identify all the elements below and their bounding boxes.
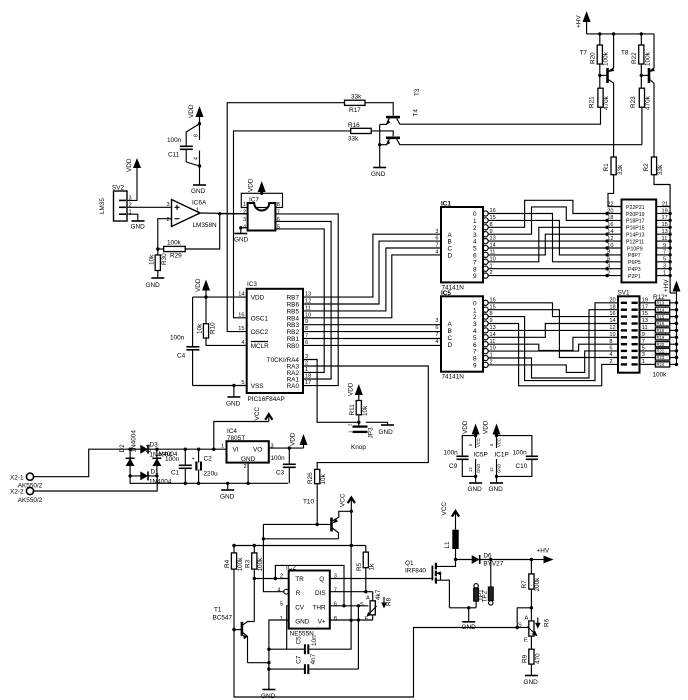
svg-text:1: 1 bbox=[243, 202, 246, 208]
supply VCC (T10) bbox=[340, 493, 355, 513]
wire IC5 out9 to SV1 6 bbox=[488, 351, 618, 373]
wire emitters to ground bbox=[379, 124, 381, 167]
svg-text:S: S bbox=[360, 602, 364, 608]
wire +HV rail bbox=[587, 33, 654, 35]
wire source to gnd bbox=[449, 607, 476, 609]
terminal X2-1 bbox=[10, 473, 43, 489]
svg-text:R30: R30 bbox=[161, 253, 168, 265]
wire THR extension to R8 wiper bbox=[344, 605, 369, 607]
ground (IC7) bbox=[234, 234, 249, 244]
wire RB6 to IC1 B bbox=[303, 241, 441, 304]
svg-text:VO: VO bbox=[253, 447, 262, 454]
svg-text:D1: D1 bbox=[151, 469, 160, 476]
svg-text:C10: C10 bbox=[516, 463, 528, 470]
svg-text:8: 8 bbox=[334, 616, 337, 622]
resistor R1 33k bbox=[603, 157, 624, 175]
wire RA3 to R26 loop bbox=[303, 366, 428, 469]
svg-text:R14: R14 bbox=[657, 307, 665, 312]
wire op-amp inverting input bbox=[158, 219, 172, 249]
wire RB2 to IC5 B bbox=[303, 331, 441, 333]
wire IC5 out0 to SV1 16 bbox=[488, 303, 618, 317]
wire IC1 out6 to pin14 bbox=[488, 234, 621, 255]
svg-text:R19: R19 bbox=[657, 335, 665, 340]
svg-text:GND: GND bbox=[131, 224, 146, 231]
svg-text:A: A bbox=[366, 596, 370, 602]
svg-text:18: 18 bbox=[607, 215, 613, 221]
svg-text:VDD: VDD bbox=[348, 382, 355, 396]
wire IC7 pin7 to RA0 bbox=[275, 214, 338, 386]
svg-text:T1: T1 bbox=[214, 607, 222, 614]
svg-text:18: 18 bbox=[305, 374, 311, 380]
svg-text:BYV27: BYV27 bbox=[483, 561, 503, 568]
svg-text:2: 2 bbox=[167, 217, 170, 223]
svg-text:14: 14 bbox=[609, 318, 615, 324]
svg-text:C11: C11 bbox=[168, 152, 180, 159]
svg-text:P10P9: P10P9 bbox=[627, 246, 643, 252]
svg-text:P22P21: P22P21 bbox=[626, 205, 645, 211]
svg-text:T8: T8 bbox=[621, 50, 629, 57]
svg-text:VCC: VCC bbox=[441, 502, 448, 516]
svg-text:VSS: VSS bbox=[251, 383, 264, 390]
wire IC1 out2 to pin20 bbox=[488, 200, 621, 227]
svg-text:PIC16F84AP: PIC16F84AP bbox=[248, 396, 285, 403]
svg-text:R22: R22 bbox=[631, 52, 638, 64]
wire R16 to T3 base bbox=[371, 131, 393, 136]
svg-text:DIS: DIS bbox=[315, 590, 326, 597]
wire TR THR loop bbox=[275, 565, 344, 605]
svg-text:74141N: 74141N bbox=[442, 374, 465, 381]
svg-text:GND: GND bbox=[524, 679, 539, 686]
wire op-amp output to IC7 pin2 bbox=[220, 213, 248, 215]
svg-text:P16P15: P16P15 bbox=[626, 226, 645, 232]
svg-text:10k: 10k bbox=[320, 473, 327, 484]
svg-text:Q1: Q1 bbox=[405, 560, 414, 567]
supply VDD (C11) bbox=[188, 104, 204, 124]
decoder IC1 74141N bbox=[435, 201, 495, 292]
svg-text:33k: 33k bbox=[657, 164, 664, 175]
svg-text:A: A bbox=[525, 616, 529, 622]
supply +HV (R12 rail) bbox=[663, 279, 681, 293]
wire CV to C5 line bbox=[287, 606, 289, 649]
svg-text:470k: 470k bbox=[603, 95, 610, 110]
wire RB5 to IC1 C bbox=[303, 248, 441, 311]
wire T1 collector to TR bbox=[253, 579, 255, 622]
svg-text:OSC1: OSC1 bbox=[251, 315, 269, 322]
supply VDD (IC3) bbox=[195, 278, 210, 297]
terminal X2-2 bbox=[10, 487, 43, 503]
svg-text:12: 12 bbox=[609, 325, 615, 331]
svg-text:R6: R6 bbox=[544, 618, 551, 627]
svg-text:GND: GND bbox=[468, 486, 483, 493]
transistor T4 bbox=[380, 109, 601, 125]
node emitters bbox=[378, 143, 381, 146]
svg-text:4: 4 bbox=[607, 264, 610, 270]
svg-text:21: 21 bbox=[662, 201, 668, 207]
ground (Q1) bbox=[462, 608, 477, 631]
svg-text:SV2: SV2 bbox=[112, 185, 125, 192]
connector SV2 bbox=[112, 185, 132, 222]
resistor R26 10k bbox=[307, 469, 327, 524]
wire feedback down bbox=[185, 214, 220, 249]
svg-text:1: 1 bbox=[305, 367, 308, 373]
svg-text:D: D bbox=[448, 253, 453, 260]
svg-text:4n7: 4n7 bbox=[310, 653, 317, 664]
node maze1 dots bbox=[605, 212, 608, 277]
supply VDD (IC5P) bbox=[462, 420, 480, 435]
svg-text:18: 18 bbox=[609, 304, 615, 310]
svg-text:4k7: 4k7 bbox=[375, 589, 382, 600]
svg-text:R11: R11 bbox=[349, 404, 356, 416]
svg-text:C5: C5 bbox=[295, 636, 302, 645]
svg-text:D2: D2 bbox=[119, 444, 126, 453]
svg-text:12: 12 bbox=[489, 467, 494, 472]
svg-text:2: 2 bbox=[243, 210, 246, 216]
jumper JP3 button bbox=[348, 422, 375, 438]
wire VDD row bbox=[193, 296, 247, 298]
svg-text:20: 20 bbox=[609, 297, 615, 303]
wire IC5 out6 to SV1 10 bbox=[488, 337, 618, 350]
supply VDD (SV2) bbox=[126, 158, 141, 172]
svg-text:R5: R5 bbox=[356, 562, 363, 571]
wire IC5 out8 to SV1 18 bbox=[488, 310, 618, 378]
svg-text:8: 8 bbox=[194, 134, 200, 137]
svg-text:IC5P: IC5P bbox=[474, 452, 488, 459]
svg-text:7: 7 bbox=[277, 210, 280, 216]
wire SV2 pin2 to op-amp bbox=[127, 206, 172, 208]
svg-text:VDD: VDD bbox=[195, 278, 202, 292]
svg-text:4: 4 bbox=[194, 157, 200, 160]
svg-text:IRF840: IRF840 bbox=[405, 568, 426, 575]
wire C7 riser to THR row bbox=[357, 606, 359, 669]
svg-text:IC4: IC4 bbox=[227, 428, 237, 435]
wire negative rail bbox=[130, 476, 288, 483]
svg-text:16: 16 bbox=[609, 311, 615, 317]
wire SV2 pin3 to VDD bbox=[127, 170, 137, 200]
diode D4 1N4004 bbox=[146, 444, 178, 476]
svg-text:1: 1 bbox=[221, 444, 224, 450]
wire IC7 pin5 to RA2 bbox=[275, 229, 324, 373]
svg-text:MCLR: MCLR bbox=[251, 343, 269, 350]
svg-text:+HV: +HV bbox=[537, 548, 550, 555]
diode D1 1N4004 bbox=[130, 469, 172, 486]
svg-text:12: 12 bbox=[607, 236, 613, 242]
timer IC2 NE555N bbox=[277, 565, 337, 638]
svg-text:R16: R16 bbox=[657, 321, 665, 326]
svg-text:R9: R9 bbox=[521, 654, 528, 663]
svg-text:GND: GND bbox=[497, 464, 502, 473]
svg-text:TP1: TP1 bbox=[478, 589, 485, 601]
svg-text:+HV: +HV bbox=[663, 279, 670, 292]
inductor L1 bbox=[444, 530, 459, 560]
wire R3 to TR row bbox=[254, 578, 288, 580]
power IC1P bbox=[489, 434, 509, 478]
svg-text:R21: R21 bbox=[589, 96, 596, 108]
resistor R30 10k bbox=[149, 249, 169, 278]
wire IC5 out7 to SV1 8 bbox=[488, 344, 618, 351]
svg-text:2: 2 bbox=[244, 464, 247, 470]
capacitor C7 4n7 bbox=[269, 653, 359, 674]
svg-text:5: 5 bbox=[277, 225, 280, 231]
wire R8 bottom to V+ row bbox=[372, 615, 374, 620]
svg-text:R23: R23 bbox=[657, 355, 665, 360]
svg-text:R8: R8 bbox=[386, 597, 393, 606]
decoder IC5 74141N bbox=[435, 290, 495, 381]
svg-text:R13: R13 bbox=[657, 301, 665, 306]
resistor R17 33k bbox=[345, 94, 366, 114]
op-amp IC6A LM358N bbox=[167, 200, 218, 230]
svg-text:R29: R29 bbox=[170, 253, 182, 260]
wire RB1 to IC5 C bbox=[303, 338, 441, 340]
wire T1 base feedback loop bbox=[234, 628, 517, 698]
svg-text:LM35: LM35 bbox=[99, 198, 106, 214]
wire loop R17 to OSC2 bbox=[227, 103, 344, 332]
wire IC7 pin6 to RA1 bbox=[275, 221, 331, 379]
connector SV1 bbox=[609, 290, 648, 373]
svg-text:1N4004: 1N4004 bbox=[149, 479, 172, 486]
svg-text:4: 4 bbox=[435, 339, 438, 345]
svg-text:16: 16 bbox=[607, 222, 613, 228]
svg-text:100n: 100n bbox=[271, 455, 286, 462]
microcontroller IC3 PIC16F84AP bbox=[238, 281, 311, 403]
svg-text:100k: 100k bbox=[603, 51, 610, 66]
svg-text:VCC: VCC bbox=[476, 438, 481, 447]
wire X2-1 to bridge bbox=[34, 449, 131, 477]
svg-text:VDD: VDD bbox=[126, 158, 133, 172]
wire IC5 out5 to SV1 14 bbox=[488, 324, 618, 338]
svg-text:GND: GND bbox=[476, 464, 481, 473]
svg-text:220u: 220u bbox=[204, 471, 219, 478]
capacitor C3 100n bbox=[271, 448, 296, 483]
wire base line to 555 reset bbox=[262, 524, 264, 538]
svg-text:BC547: BC547 bbox=[213, 615, 233, 622]
resistor R4 100k bbox=[224, 546, 244, 630]
wire IC1 out9 to pin2 bbox=[488, 275, 621, 277]
transistor T7 bbox=[598, 34, 614, 157]
svg-text:R7: R7 bbox=[521, 580, 528, 589]
svg-text:100n: 100n bbox=[165, 456, 180, 463]
svg-text:9: 9 bbox=[473, 273, 477, 280]
testpoint TP1 bbox=[474, 584, 485, 608]
svg-text:GND: GND bbox=[226, 401, 241, 408]
svg-text:+: + bbox=[192, 457, 195, 463]
svg-text:100n: 100n bbox=[167, 137, 182, 144]
svg-text:T3: T3 bbox=[414, 88, 421, 96]
svg-text:10k: 10k bbox=[149, 254, 156, 265]
wire X2-2 to bridge bbox=[34, 476, 158, 491]
svg-text:R23: R23 bbox=[630, 96, 637, 108]
svg-text:4: 4 bbox=[435, 250, 438, 256]
mosfet Q1 IRF840 bbox=[405, 560, 456, 608]
svg-text:D4: D4 bbox=[146, 444, 153, 453]
wire SV2 pin1 to GND bbox=[127, 214, 138, 220]
svg-text:VDD: VDD bbox=[483, 420, 490, 434]
svg-text:RB0: RB0 bbox=[287, 343, 300, 350]
svg-text:T10: T10 bbox=[303, 499, 314, 506]
ground (IC1P) bbox=[489, 476, 504, 493]
svg-text:VDD: VDD bbox=[188, 104, 195, 118]
wire 555 gnd pin bbox=[269, 620, 289, 689]
capacitor C10 100n bbox=[497, 436, 539, 477]
wire VSS row bbox=[193, 385, 247, 387]
svg-text:R20: R20 bbox=[590, 52, 597, 64]
resistor R29 100k bbox=[158, 240, 185, 260]
resistor R3 100k bbox=[244, 546, 264, 579]
supply VCC (L1) bbox=[441, 502, 459, 530]
ground (T3 T4) bbox=[371, 168, 386, 179]
svg-text:8: 8 bbox=[607, 250, 610, 256]
svg-text:C9: C9 bbox=[449, 463, 458, 470]
wire T10 collector to 555 reset bbox=[263, 539, 338, 592]
ground (IC5P) bbox=[468, 476, 483, 493]
wire RA4 to button bbox=[303, 360, 359, 423]
svg-text:17: 17 bbox=[305, 380, 311, 386]
svg-text:Q: Q bbox=[319, 576, 324, 583]
wire R17 to T4 base bbox=[365, 103, 393, 116]
svg-text:VCC: VCC bbox=[340, 493, 347, 507]
svg-text:L1: L1 bbox=[444, 541, 451, 549]
ground (JP3) bbox=[379, 425, 395, 436]
wire IC5 out3 to SV1 2 bbox=[488, 324, 618, 386]
resistor R2 33k bbox=[643, 157, 664, 175]
svg-text:9: 9 bbox=[473, 363, 477, 370]
svg-text:1: 1 bbox=[280, 616, 283, 622]
supply VDD (R11) bbox=[348, 382, 363, 400]
power IC5P bbox=[468, 434, 488, 478]
svg-text:IC7: IC7 bbox=[249, 197, 259, 204]
wire T10 base bbox=[263, 523, 330, 525]
svg-text:X2-2: X2-2 bbox=[10, 489, 24, 496]
svg-text:2: 2 bbox=[609, 359, 612, 365]
wire IC1 out7 to pin16 bbox=[488, 227, 621, 261]
svg-text:100n: 100n bbox=[444, 450, 459, 457]
svg-text:20: 20 bbox=[607, 208, 613, 214]
ground (SV2) bbox=[131, 221, 146, 231]
trimmer R6 bbox=[518, 608, 551, 644]
resistor R11 10k bbox=[349, 401, 369, 423]
svg-text:7: 7 bbox=[435, 332, 438, 338]
svg-text:VDD: VDD bbox=[290, 432, 297, 446]
resistor R21 470k bbox=[589, 75, 611, 124]
svg-text:GND: GND bbox=[241, 456, 256, 463]
svg-text:GND: GND bbox=[146, 282, 161, 289]
svg-text:TR: TR bbox=[295, 576, 304, 583]
resistor R16 33k bbox=[348, 122, 371, 143]
svg-text:RA0: RA0 bbox=[287, 383, 300, 390]
ground (555) bbox=[261, 690, 276, 700]
svg-text:GND: GND bbox=[489, 486, 504, 493]
svg-text:C3: C3 bbox=[276, 470, 285, 477]
svg-text:VCC: VCC bbox=[497, 438, 502, 447]
capacitor C9 100n bbox=[444, 436, 476, 477]
svg-text:VDD: VDD bbox=[462, 420, 469, 434]
svg-text:P20P19: P20P19 bbox=[626, 212, 645, 218]
wire positive rail bbox=[157, 448, 227, 450]
wire RB3 to IC5 A bbox=[303, 324, 441, 326]
svg-text:R3: R3 bbox=[244, 559, 251, 568]
wire IC5 out4 to SV1 12 bbox=[488, 329, 618, 331]
svg-text:JP3: JP3 bbox=[368, 427, 375, 438]
svg-text:D: D bbox=[448, 342, 453, 349]
svg-text:R15: R15 bbox=[657, 314, 665, 319]
svg-text:4: 4 bbox=[277, 588, 280, 594]
op-amp IC7 DIP socket bbox=[241, 193, 282, 230]
svg-text:1: 1 bbox=[196, 208, 199, 214]
supply VDD (IC1P) bbox=[483, 420, 501, 435]
svg-text:6: 6 bbox=[277, 217, 280, 223]
svg-text:3: 3 bbox=[167, 202, 170, 208]
svg-text:100k: 100k bbox=[167, 240, 182, 247]
svg-text:OSC2: OSC2 bbox=[251, 329, 269, 336]
wire IC4 gnd bbox=[247, 463, 249, 484]
ground (IC3) bbox=[226, 386, 241, 408]
svg-text:GND: GND bbox=[379, 429, 394, 436]
svg-text:16: 16 bbox=[238, 312, 244, 318]
svg-text:S: S bbox=[518, 623, 522, 629]
wire VO bbox=[269, 447, 304, 449]
svg-text:100k: 100k bbox=[257, 557, 264, 572]
wire R2 to pin21 bbox=[654, 175, 670, 207]
svg-text:6: 6 bbox=[435, 325, 438, 331]
trimmer R8 4k7 bbox=[360, 589, 393, 622]
node feedback bbox=[156, 247, 159, 250]
wire loop R16 to OSC1 bbox=[234, 131, 351, 318]
wire Q to gate bbox=[330, 578, 432, 580]
wire RB4 to IC1 D bbox=[303, 255, 441, 318]
node bridge corners bbox=[128, 448, 131, 451]
svg-text:10k: 10k bbox=[362, 405, 369, 416]
svg-text:8: 8 bbox=[609, 339, 612, 345]
wire RB0 to IC5 D bbox=[303, 344, 441, 346]
resistor R5 1k bbox=[356, 546, 375, 592]
svg-text:GND: GND bbox=[462, 624, 477, 631]
svg-text:P6P5: P6P5 bbox=[628, 260, 641, 266]
svg-text:10: 10 bbox=[609, 332, 615, 338]
svg-text:C7: C7 bbox=[295, 655, 302, 664]
svg-text:6: 6 bbox=[334, 602, 337, 608]
svg-text:470k: 470k bbox=[645, 95, 652, 110]
resistor R20 100k bbox=[590, 34, 610, 76]
regulator IC4 7805T bbox=[221, 428, 274, 470]
resistor array R12 100k bbox=[640, 293, 679, 379]
svg-text:R20: R20 bbox=[657, 342, 665, 347]
svg-text:LM358N: LM358N bbox=[193, 222, 218, 229]
capacitor C2 220u bbox=[192, 448, 219, 485]
svg-text:P8P7: P8P7 bbox=[628, 253, 641, 259]
ground (C11) bbox=[191, 166, 206, 195]
supply VDD (IC7) bbox=[248, 178, 266, 195]
svg-text:X2-1: X2-1 bbox=[10, 474, 24, 481]
svg-text:100n: 100n bbox=[513, 450, 528, 457]
svg-text:R26: R26 bbox=[307, 472, 314, 484]
svg-text:14: 14 bbox=[607, 229, 613, 235]
svg-text:6: 6 bbox=[607, 257, 610, 263]
ground (R9) bbox=[524, 676, 539, 687]
capacitor C11 100n with LM358 power pins bbox=[167, 122, 201, 168]
svg-text:AK550/2: AK550/2 bbox=[18, 497, 43, 504]
svg-text:R17: R17 bbox=[349, 107, 361, 114]
capacitor C5 10n bbox=[269, 620, 351, 654]
wire IC5 out2 to SV1 20 bbox=[488, 303, 618, 381]
node drain junction bbox=[454, 558, 457, 561]
diode D2 1N4004 bbox=[119, 430, 138, 476]
node HV junction bbox=[530, 558, 533, 561]
svg-text:V+: V+ bbox=[318, 618, 326, 625]
wire R7 to R6 jog bbox=[530, 606, 533, 609]
node VI junction bbox=[212, 448, 215, 451]
wire DIS to R5 bbox=[330, 591, 366, 593]
svg-text:C2: C2 bbox=[204, 456, 213, 463]
svg-text:VDD: VDD bbox=[251, 295, 265, 302]
